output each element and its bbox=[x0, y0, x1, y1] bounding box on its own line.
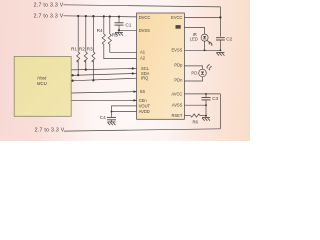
svg-text:2.7 to 3.3 V: 2.7 to 3.3 V bbox=[34, 14, 64, 20]
svg-text:C2: C2 bbox=[226, 37, 232, 42]
svg-text:C3: C3 bbox=[212, 96, 218, 101]
svg-text:R4: R4 bbox=[97, 28, 103, 33]
svg-text:AVSS: AVSS bbox=[172, 103, 183, 108]
svg-text:DVSS: DVSS bbox=[139, 28, 150, 33]
svg-text:VOUT: VOUT bbox=[139, 103, 151, 108]
svg-text:R6: R6 bbox=[193, 120, 199, 125]
svg-text:R5: R5 bbox=[112, 33, 118, 38]
svg-text:MCU: MCU bbox=[37, 81, 48, 86]
svg-text:2.7 to 3.3 V: 2.7 to 3.3 V bbox=[34, 2, 64, 8]
svg-text:PDp: PDp bbox=[174, 63, 183, 68]
svg-text:AVCC: AVCC bbox=[171, 91, 182, 96]
svg-text:PD: PD bbox=[191, 71, 197, 76]
svg-text:DVCC: DVCC bbox=[139, 15, 151, 20]
svg-text:RSET: RSET bbox=[171, 113, 182, 118]
svg-text:LED: LED bbox=[190, 37, 198, 42]
svg-text:R2: R2 bbox=[79, 46, 85, 51]
svg-text:PDn: PDn bbox=[174, 78, 183, 83]
svg-text:IRQ: IRQ bbox=[141, 76, 148, 81]
svg-text:AVDD: AVDD bbox=[139, 109, 150, 114]
svg-text:C4: C4 bbox=[100, 115, 106, 120]
svg-text:A2: A2 bbox=[140, 55, 146, 60]
svg-text:R1: R1 bbox=[71, 46, 77, 51]
svg-text:EVCC: EVCC bbox=[171, 15, 182, 20]
svg-text:C1: C1 bbox=[125, 23, 131, 28]
svg-text:R3: R3 bbox=[87, 46, 93, 51]
svg-text:EVSS: EVSS bbox=[171, 47, 182, 52]
svg-text:SS: SS bbox=[140, 89, 146, 94]
svg-text:Host: Host bbox=[37, 75, 47, 80]
svg-text:A1: A1 bbox=[140, 50, 146, 55]
svg-text:2.7 to 3.3 V: 2.7 to 3.3 V bbox=[35, 128, 65, 134]
svg-text:CEn: CEn bbox=[139, 98, 148, 103]
